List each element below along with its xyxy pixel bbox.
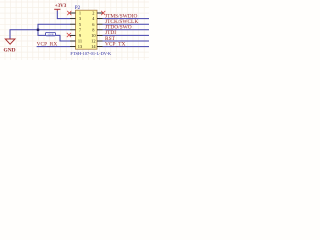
svg-text:+3V3: +3V3	[55, 4, 67, 9]
pin 6	[97, 23, 103, 25]
pin 10	[97, 34, 103, 36]
pin 11	[70, 40, 76, 42]
pin 7	[70, 29, 76, 31]
pin 13	[70, 46, 76, 48]
pin 12	[97, 40, 103, 42]
pin 3	[70, 18, 76, 20]
svg-text:11: 11	[78, 39, 82, 44]
wire pin 5 to gnd rail	[38, 24, 70, 35]
no-connect X pin 2	[101, 11, 105, 15]
wire pin 7 long gnd wire	[10, 30, 70, 39]
svg-text:P2: P2	[75, 5, 81, 11]
pin 14	[97, 46, 103, 48]
wire pin 6 JTCK	[103, 23, 150, 25]
wire pin 12 RST	[103, 40, 150, 42]
svg-text:1: 1	[79, 11, 81, 16]
svg-text:100R: 100R	[47, 33, 54, 37]
wire +3V3 to pin 3	[57, 11, 70, 19]
svg-text:2: 2	[92, 11, 94, 16]
wire pin 10 JTDI	[103, 34, 150, 36]
no-connect X pin 9	[67, 33, 71, 37]
resistor R100	[45, 32, 55, 35]
svg-text:VCP_TX: VCP_TX	[105, 41, 125, 47]
pin 1	[70, 12, 76, 14]
pin 4	[97, 18, 103, 20]
pin 9	[70, 34, 76, 36]
no-connect X pin 1	[67, 11, 71, 15]
svg-text:FTSH-107-01-L-DV-K: FTSH-107-01-L-DV-K	[70, 51, 112, 56]
pin 8	[97, 29, 103, 31]
junction at gnd rail	[37, 29, 39, 31]
wire resistor to pin 11	[56, 35, 70, 41]
svg-text:VCP_RX: VCP_RX	[37, 41, 58, 47]
connector P2 body	[76, 10, 98, 49]
svg-text:GND: GND	[4, 47, 16, 53]
pin 2	[97, 12, 103, 14]
ground symbol	[9, 30, 11, 39]
wire VCP_RX to pin 13	[37, 46, 70, 48]
wire pin 8 JTDO	[103, 29, 150, 31]
wire pin 14 VCP_TX	[103, 46, 150, 48]
wire pin 4 JTMS	[103, 18, 150, 20]
pin 5	[70, 23, 76, 25]
svg-text:12: 12	[91, 39, 95, 44]
